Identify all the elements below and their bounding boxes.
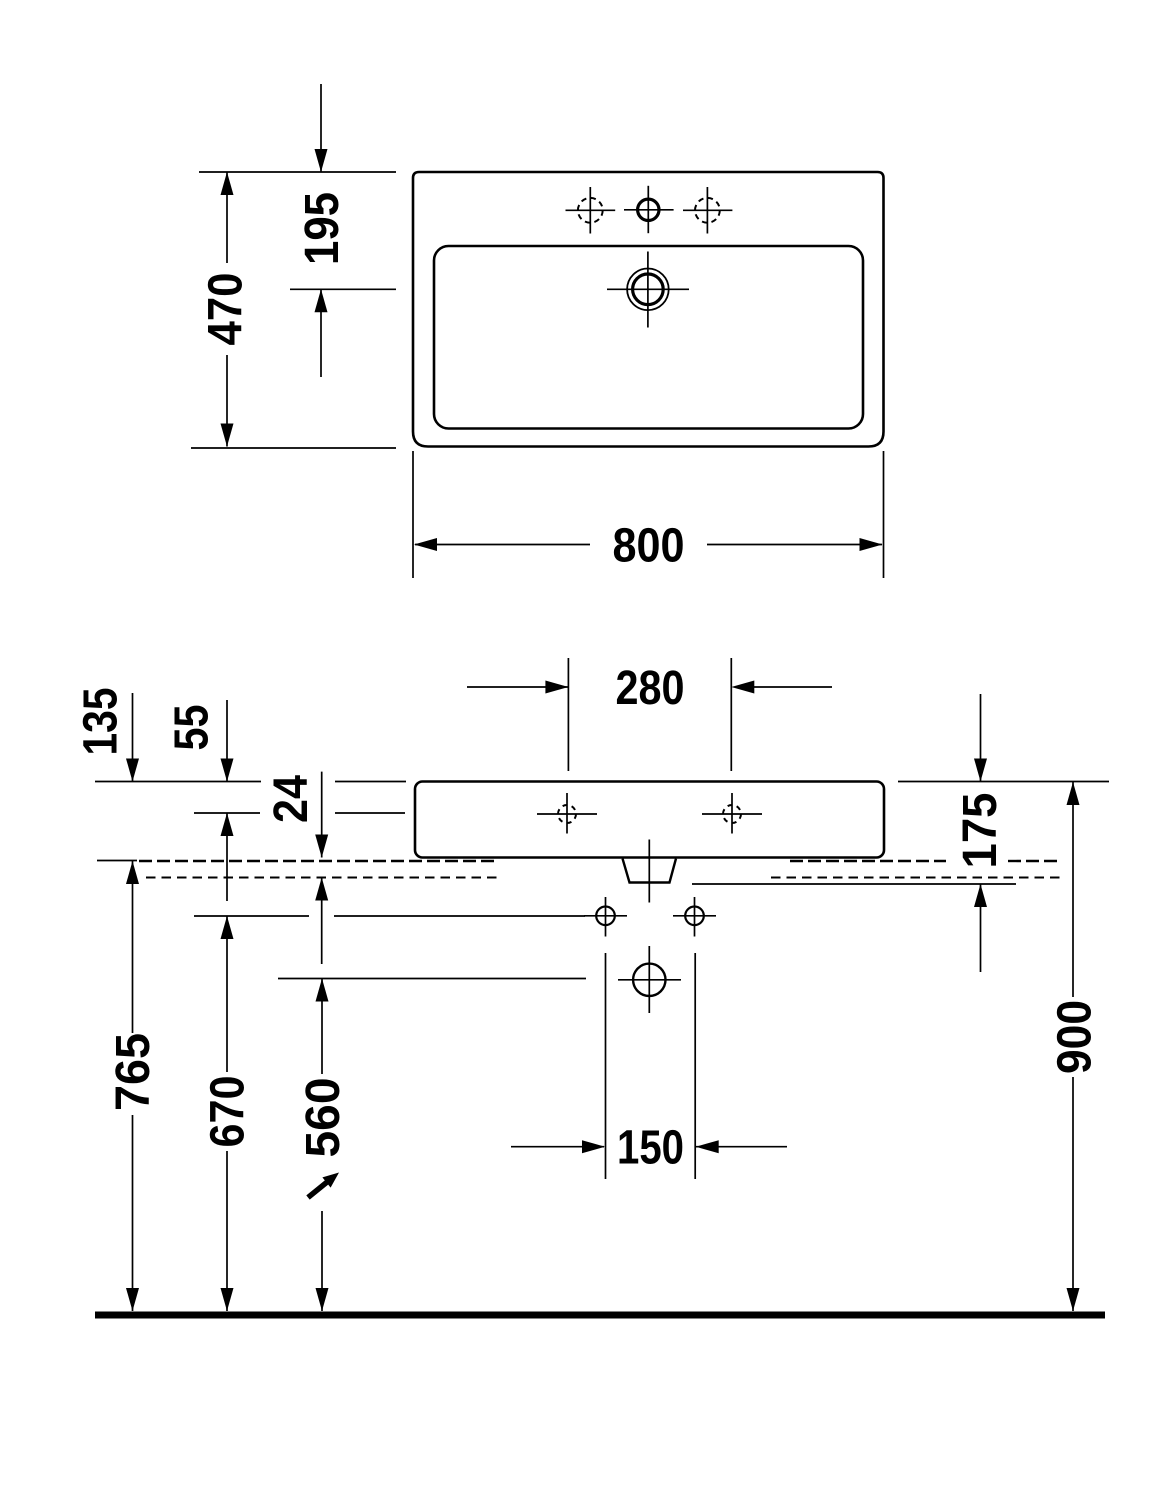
- svg-text:55: 55: [165, 705, 219, 751]
- svg-text:195: 195: [295, 192, 349, 265]
- svg-text:800: 800: [613, 519, 685, 573]
- svg-text:670: 670: [201, 1076, 255, 1148]
- svg-text:150: 150: [617, 1121, 684, 1175]
- svg-text:175: 175: [953, 793, 1007, 869]
- svg-text:470: 470: [199, 273, 253, 346]
- svg-text:280: 280: [616, 661, 685, 715]
- svg-text:900: 900: [1048, 1000, 1102, 1074]
- svg-text:135: 135: [74, 688, 128, 756]
- svg-text:560: 560: [296, 1078, 350, 1158]
- svg-text:765: 765: [106, 1033, 160, 1111]
- svg-text:24: 24: [264, 775, 318, 823]
